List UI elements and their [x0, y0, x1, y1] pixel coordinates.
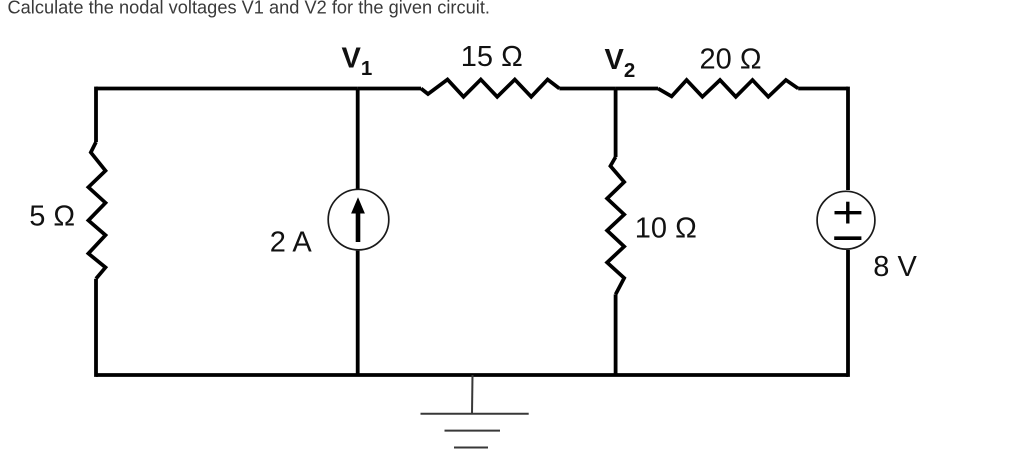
wire top: left corner to node V1 [96, 87, 358, 91]
svg-text:15 Ω: 15 Ω [461, 41, 523, 73]
wire: node V1 to resistor R1 left lead [358, 87, 421, 91]
svg-text:20 Ω: 20 Ω [700, 44, 762, 76]
svg-text:5 Ω: 5 Ω [29, 201, 75, 233]
wire: resistor R2 right lead to top-right corner [798, 87, 848, 91]
wire bottom: left corner to right corner [96, 373, 848, 377]
svg-text:2 A: 2 A [270, 226, 313, 258]
current source I1 circle (2 A) [328, 189, 389, 250]
ground (bottom centre) [421, 375, 529, 448]
resistor R3 10 ohm (vertical, below V2) [607, 157, 624, 294]
wire: node V1 down to current source top [356, 89, 360, 190]
wire: left branch upper lead [94, 87, 98, 142]
wire: current source bottom to bottom wire [356, 251, 360, 375]
wire: node V2 down to resistor R3 top lead [614, 89, 618, 158]
svg-text:V1: V1 [342, 43, 373, 81]
wire: resistor R3 bottom lead to bottom wire [614, 294, 618, 375]
svg-text:V2: V2 [605, 44, 636, 82]
svg-text:8 V: 8 V [873, 251, 917, 283]
resistor R2 20 ohm (horizontal, V2 to right corner) [658, 80, 798, 97]
voltage source VS1 plus sign [835, 202, 862, 224]
resistor R1 15 ohm (horizontal, V1 to V2) [421, 80, 559, 97]
wire: top-right corner down to voltage source top [846, 87, 850, 190]
wire: node V2 to resistor R2 left lead [616, 87, 658, 91]
wire: resistor R1 right lead to node V2 [559, 87, 615, 91]
voltage source VS1 circle (8 V) [817, 191, 875, 249]
voltage source VS1 minus sign [834, 236, 861, 240]
wire: voltage source bottom to bottom-right corner [846, 250, 850, 377]
svg-text:Calculate the nodal voltages V: Calculate the nodal voltages V1 and V2 f… [8, 0, 490, 18]
svg-text:10 Ω: 10 Ω [635, 213, 697, 245]
current source I1 arrow (pointing up) [351, 197, 365, 242]
wire: left branch lower lead [94, 279, 98, 377]
resistor R4 5 ohm (vertical, left branch) [88, 142, 105, 279]
